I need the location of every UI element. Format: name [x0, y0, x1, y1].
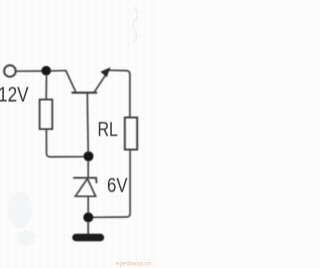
zener D1 anode triangle — [75, 179, 95, 197]
wire R1 bottom to node B — [46, 130, 84, 157]
wire node C to ground — [87, 222, 89, 234]
ground — [72, 234, 104, 241]
transistor Q1 emitter lead — [94, 69, 109, 92]
wire emitter to RL top — [110, 70, 130, 116]
wire node A to R1 top — [45, 75, 47, 99]
wire RL bottom to node C — [93, 150, 130, 217]
zener D1 cathode bar — [74, 178, 97, 183]
terminal input — [4, 65, 16, 77]
transistor Q1 collector lead — [66, 71, 76, 92]
wire node A to collector — [51, 70, 66, 72]
wire zener anode to node C — [87, 197, 89, 212]
wire node B to zener cathode — [87, 161, 89, 178]
faint scan smudge top right — [133, 7, 137, 42]
faint scan noise bottom left — [8, 192, 32, 228]
svg-text:✳jiedianqi.cn: ✳jiedianqi.cn — [115, 260, 152, 267]
svg-text:6V: 6V — [107, 173, 128, 196]
wire Q1 base to node B — [86, 94, 89, 152]
svg-text:12V: 12V — [0, 84, 29, 107]
resistor RL body — [125, 118, 137, 150]
resistor R1 body — [40, 100, 53, 130]
node C junction dot — [83, 212, 93, 222]
node B junction dot — [84, 151, 94, 161]
svg-text:RL: RL — [98, 118, 118, 140]
transistor Q1 emitter arrow — [101, 68, 110, 77]
transistor Q1 base bar — [72, 92, 96, 94]
wire terminal to node A — [17, 70, 42, 72]
node A junction dot — [41, 66, 51, 76]
